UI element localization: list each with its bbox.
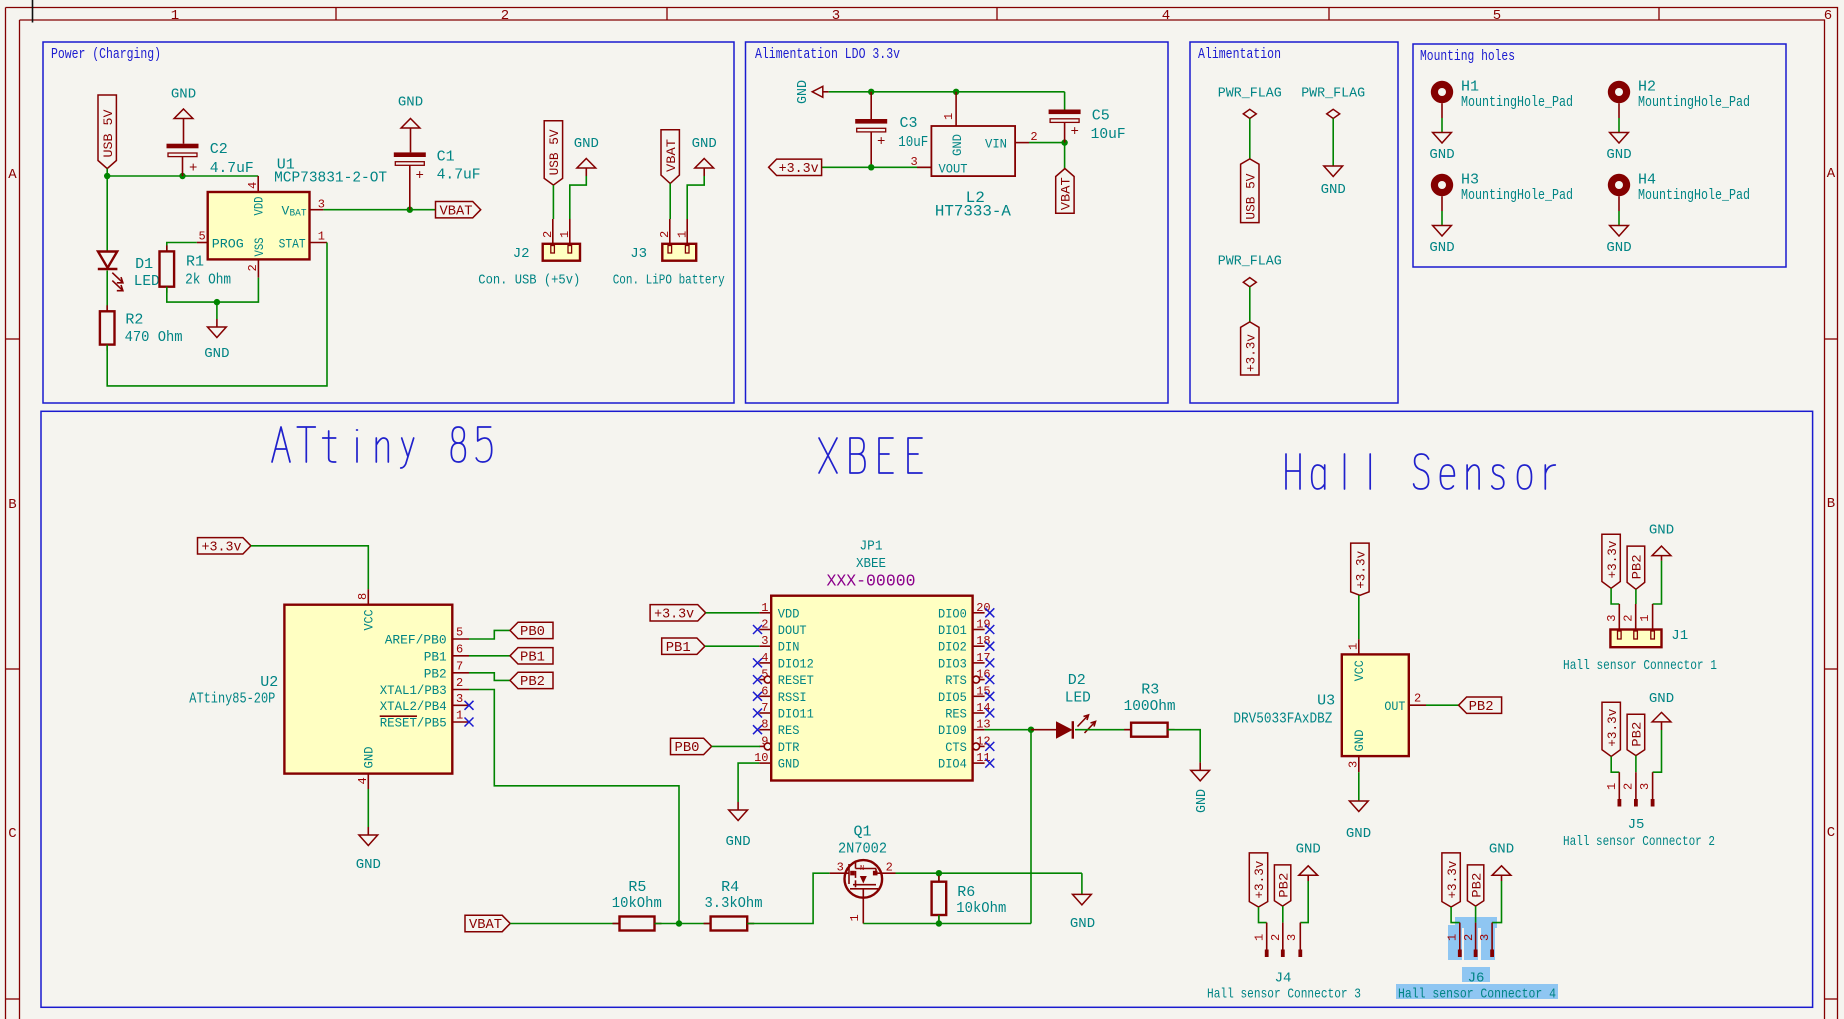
global label PB2 vertical (J5) [1627,714,1645,755]
svg-text:3: 3 [1478,934,1492,941]
svg-text:GND: GND [1606,147,1631,163]
svg-text:2: 2 [541,231,555,238]
svg-text:Mounting holes: Mounting holes [1420,48,1515,65]
svg-text:2: 2 [501,8,509,24]
svg-text:R3: R3 [1141,682,1159,699]
svg-text:+3.3v: +3.3v [779,161,819,177]
global label PB2 vertical (J1) [1627,546,1645,589]
svg-text:R6: R6 [957,884,975,901]
svg-text:J1: J1 [1671,628,1688,644]
svg-text:B: B [1827,496,1835,512]
JP1 pin 9 DTR [759,745,764,747]
svg-text:VIN: VIN [985,137,1007,152]
svg-text:GND: GND [692,136,717,152]
svg-text:VBAT: VBAT [664,139,679,172]
svg-text:7: 7 [456,659,463,673]
svg-text:A: A [8,167,17,183]
power flag VBAT (J3) [661,130,679,184]
svg-text:DRV5033FAxDBZ: DRV5033FAxDBZ [1233,711,1332,728]
svg-text:H3: H3 [1461,172,1479,189]
mounting hole H2 [1608,81,1630,103]
svg-text:GND: GND [1429,147,1454,163]
svg-text:J3: J3 [630,246,647,262]
svg-text:1: 1 [558,231,572,238]
svg-text:PB0: PB0 [675,740,700,756]
ground symbol (U1) [216,319,218,327]
svg-text:1: 1 [1638,614,1652,621]
wire to GND (Q1 drain) [1081,873,1083,894]
U2 pin 8 VCC [367,589,369,605]
svg-text:V: V [282,203,290,218]
svg-text:2: 2 [1414,692,1421,706]
svg-text:GND: GND [1352,729,1367,751]
U2 pin 1 RESET/PB5 [452,721,469,723]
svg-text:2: 2 [1622,783,1636,790]
power flag USB 5V (power box) [98,95,116,169]
U2 pin 3 XTAL2/PB4 [452,704,469,706]
svg-text:+3.3v: +3.3v [1605,709,1620,747]
wire VBAT to R5 [510,923,619,925]
wire JP1 GND [738,763,759,802]
svg-text:MountingHole_Pad: MountingHole_Pad [1638,187,1750,204]
mounting hole H1 [1431,81,1453,103]
svg-text:4: 4 [356,777,370,784]
JP1 pin 18 DIO2 [973,645,985,647]
svg-text:DIO4: DIO4 [938,757,967,772]
svg-text:17: 17 [976,651,990,665]
svg-text:PB2: PB2 [520,674,545,690]
svg-text:2k Ohm: 2k Ohm [185,272,231,289]
svg-text:1: 1 [171,8,179,24]
ground symbol (U3) [1358,800,1360,802]
svg-text:7: 7 [761,701,768,715]
selection highlight J6 name [1462,967,1490,982]
capacitor C1 [394,152,426,157]
svg-text:DIN: DIN [778,640,800,655]
svg-text:+: + [189,161,197,177]
junction C3 top [868,89,874,95]
junction R5/R4 node [676,920,682,926]
svg-text:VCC: VCC [1352,660,1367,681]
svg-text:VBAT: VBAT [469,917,502,933]
selection highlight J6 pins [1448,925,1462,960]
JP1 pin 10 GND [759,762,771,764]
svg-text:9: 9 [761,734,768,748]
global label VBAT (bottom) [465,915,510,931]
svg-text:GND: GND [1649,523,1674,539]
svg-text:GND: GND [1489,842,1514,858]
svg-text:DIO11: DIO11 [778,707,814,722]
wire node down to D1 [106,176,108,252]
svg-text:MCP73831-2-OT: MCP73831-2-OT [274,170,387,187]
svg-text:100Ohm: 100Ohm [1124,698,1176,715]
wire VBAT net [323,209,435,211]
svg-text:3: 3 [1605,614,1619,621]
svg-text:10uF: 10uF [1091,126,1126,143]
wire C3 bottom to +3.3v rail [822,166,932,168]
junction R6 bottom [936,920,942,926]
U1 pin 5 PROG [197,242,208,244]
svg-text:H2: H2 [1638,79,1656,96]
svg-text:VSS: VSS [252,237,267,256]
svg-text:PB2: PB2 [1469,699,1494,715]
svg-text:GND: GND [1070,916,1095,932]
svg-text:DIO3: DIO3 [938,656,967,671]
U3 pin 2 OUT [1409,704,1426,706]
svg-text:PB1: PB1 [666,640,691,656]
svg-text:J5: J5 [1628,817,1645,833]
global label PB1 (U2) [510,648,553,664]
junction USB5V node [104,173,110,179]
svg-text:+3.3v: +3.3v [1244,334,1259,372]
U1 pin 2 VSS [257,259,259,277]
svg-text:GND: GND [725,834,750,850]
junction C3 bottom [868,164,874,170]
svg-text:R1: R1 [186,254,204,271]
global label PB2 vertical (J4) [1274,865,1290,906]
JP1 pin 6 RSSI [759,695,771,697]
svg-text:AREF/PB0: AREF/PB0 [385,633,447,648]
JP1 pin 7 DIO11 [759,712,771,714]
junction R6 top [936,870,942,876]
svg-text:3: 3 [761,634,768,648]
junction DIO9 [1028,727,1034,733]
JP1 pin 2 DOUT [759,629,771,631]
ground symbol (R3, rotated) [1199,762,1201,770]
svg-text:1: 1 [848,914,862,921]
svg-text:6: 6 [1824,8,1832,24]
wire OUT to PB2 [1426,704,1459,706]
power flag +3.3v (U3) [1351,543,1369,595]
svg-text:3: 3 [837,861,844,875]
svg-text:GND: GND [362,746,377,768]
svg-text:H1: H1 [1461,79,1479,96]
svg-text:5: 5 [456,626,463,640]
global label VBAT (power box) [436,202,481,218]
svg-text:DTR: DTR [778,740,800,755]
svg-text:A: A [1827,166,1836,182]
svg-text:3: 3 [1285,934,1299,941]
JP1 pin 5 RESET [759,679,764,681]
svg-text:+3.3v: +3.3v [1252,860,1267,898]
junction C5/VBAT [1061,139,1067,145]
wire J1 pin2 (PB2) [1635,589,1637,604]
svg-text:5: 5 [199,230,206,244]
svg-text:JP1: JP1 [860,539,883,555]
section box Power (Charging) [43,42,734,403]
wire J1 pin3 (+3.3v) [1611,588,1619,604]
wire PB0 to DTR [712,745,760,747]
JP1 pin 12 CTS [980,745,985,747]
U1 pin 1 STAT [310,242,328,244]
svg-text:+3.3v: +3.3v [1605,540,1620,578]
svg-text:18: 18 [976,634,990,648]
svg-text:16: 16 [976,668,990,682]
svg-text:R2: R2 [125,312,143,329]
svg-text:H4: H4 [1638,172,1656,189]
diode D1 LED [98,252,117,268]
svg-text:2: 2 [1462,934,1476,941]
section box Alimentation [1190,42,1398,403]
wire PB1 to DIN [705,645,759,647]
global label PB1 (JP1) [662,638,705,654]
svg-text:GND: GND [795,80,811,104]
svg-text:8: 8 [761,718,768,732]
svg-text:GND: GND [778,757,800,772]
wire J4 pin2 (PB2) [1282,906,1284,923]
capacitor C5 10uF [1064,92,1066,110]
svg-text:VOUT: VOUT [939,162,968,177]
diode D2 LED [1056,721,1073,739]
wire pin6 to PB1 [469,655,510,657]
resistor R6 10kOhm [938,873,940,882]
svg-text:+: + [416,168,424,184]
frame column ticks [335,8,337,21]
wire J3 GND to pin1 [687,176,704,219]
junction L2 pin1 [953,89,959,95]
svg-text:Power (Charging): Power (Charging) [51,46,161,63]
svg-text:3.3kOhm: 3.3kOhm [705,895,763,912]
svg-text:DOUT: DOUT [778,623,807,638]
svg-text:5: 5 [761,668,768,682]
svg-text:2: 2 [246,264,260,271]
svg-text:1: 1 [318,230,325,244]
svg-text:XTAL2/PB4: XTAL2/PB4 [380,699,447,714]
svg-text:1: 1 [761,601,768,615]
power flag USB 5V (J2) [544,121,562,185]
wire PROG to R1 [167,243,197,252]
wire D1 to R2 [106,271,108,312]
svg-text:BAT: BAT [290,208,307,219]
svg-text:470 Ohm: 470 Ohm [125,329,183,346]
svg-text:GND: GND [171,87,196,103]
wire DIO9 node down [1030,730,1032,924]
JP1 pin 3 DIN [759,645,771,647]
title Hall Sensor [1286,454,1300,489]
svg-text:PB2: PB2 [424,666,447,681]
junction VSS/GND node [214,299,220,305]
wire R5 to R4 [655,923,711,925]
svg-text:4: 4 [246,182,260,189]
svg-text:+3.3v: +3.3v [202,539,242,555]
U1 pin 4 VDD [257,176,259,192]
ground symbol (Q1 drain) [1081,893,1083,895]
svg-text:C2: C2 [210,141,228,158]
svg-text:RESET: RESET [778,673,814,688]
svg-text:RESET/PB5: RESET/PB5 [380,716,447,731]
svg-text:RSSI: RSSI [778,690,807,705]
wire J3 pin2 [669,184,671,220]
svg-text:OUT: OUT [1384,699,1405,714]
svg-text:GND: GND [204,346,229,362]
svg-text:U3: U3 [1317,693,1335,710]
svg-text:3: 3 [832,8,840,24]
JP1 pin 4 DIO12 [759,662,771,664]
svg-text:XXX-00000: XXX-00000 [827,573,916,592]
svg-text:15: 15 [976,684,990,698]
svg-text:1: 1 [942,113,956,120]
svg-text:+: + [1071,124,1079,140]
svg-text:4: 4 [761,651,768,665]
wire USB5V to node [106,169,108,176]
JP1 pin 1 VDD [759,612,771,614]
power flag +3.3v (J6) [1442,853,1460,907]
wire J1 pin1 (GND) [1653,561,1662,604]
title XBEE [819,438,837,473]
wire STAT to R2 bottom [107,243,327,386]
svg-text:LED: LED [1065,690,1091,707]
svg-text:XTAL1/PB3: XTAL1/PB3 [380,683,447,698]
svg-text:PB2: PB2 [1630,722,1645,747]
svg-text:12: 12 [976,734,990,748]
wire J5 pin3 (GND) [1653,730,1662,772]
L2 pin 3 VOUT [917,166,931,168]
svg-text:MountingHole_Pad: MountingHole_Pad [1638,94,1750,111]
global label +3.3v (U2) [198,538,251,554]
svg-text:PWR_FLAG: PWR_FLAG [1301,86,1365,102]
wire J2 GND to pin1 [570,176,587,219]
title ATtiny 85 [272,427,290,462]
svg-text:1: 1 [456,709,463,723]
wire J6 pin2 (PB2) [1475,906,1477,923]
svg-text:DIO2: DIO2 [938,640,967,655]
resistor R3 100Ohm [1124,729,1131,731]
Q1 pin 1 lead [862,898,864,924]
svg-text:N: N [860,865,864,873]
svg-text:R5: R5 [628,879,646,896]
svg-text:3: 3 [1638,783,1652,790]
wire J6 pin3 (GND) [1492,881,1501,923]
svg-text:6: 6 [761,684,768,698]
U2 pin 6 PB1 [452,655,469,657]
svg-text:10kOhm: 10kOhm [956,900,1006,917]
JP1 pin 14 RES [973,712,985,714]
svg-text:RTS: RTS [945,673,967,688]
global label +3.3v (LDO) [769,159,822,175]
section box main (ATtiny 85 / XBEE / Hall Sensor) [41,411,1813,1007]
wire R3 to GND [1168,730,1201,763]
svg-text:14: 14 [976,701,990,715]
svg-text:PB1: PB1 [424,649,447,664]
svg-text:PROG: PROG [212,236,244,251]
svg-text:U2: U2 [260,674,278,691]
svg-text:4.7uF: 4.7uF [210,160,254,177]
svg-text:3: 3 [1347,761,1361,768]
U2 pin 5 AREF/PB0 [452,638,469,640]
wire +3.3v to VDD [706,612,760,614]
svg-text:GND: GND [574,136,599,152]
IC U2 ATtiny85-20P body [284,605,452,774]
svg-text:D1: D1 [135,256,153,273]
global label PB2 (U3) [1459,697,1502,713]
svg-text:USB 5V: USB 5V [547,129,562,175]
svg-text:MountingHole_Pad: MountingHole_Pad [1461,94,1573,111]
svg-text:GND: GND [1194,789,1210,813]
svg-text:2: 2 [886,861,893,875]
svg-text:20: 20 [976,601,990,615]
svg-text:STAT: STAT [279,236,306,251]
svg-text:J2: J2 [513,246,530,262]
IC U3 DRV5033FAxDBZ body [1342,654,1409,756]
wire LDO top rail [829,91,1065,93]
svg-text:+3.3v: +3.3v [1445,860,1460,898]
U3 pin 1 VCC [1358,639,1360,654]
connector JP1 XBEE body [771,596,972,781]
svg-text:VBAT: VBAT [1059,177,1074,210]
svg-text:6: 6 [456,642,463,656]
svg-text:GND: GND [1346,826,1371,842]
global label +3.3v (JP1) [650,605,706,621]
svg-text:C1: C1 [437,149,455,166]
svg-text:8: 8 [356,593,370,600]
svg-text:MountingHole_Pad: MountingHole_Pad [1461,187,1573,204]
svg-text:HT7333-A: HT7333-A [935,203,1011,221]
mounting hole H3 [1431,174,1453,196]
junction C2 node [179,173,185,179]
JP1 pin 8 RES [759,729,771,731]
svg-text:DIO12: DIO12 [778,656,814,671]
resistor R2 470 Ohm [106,305,108,311]
svg-text:DIO0: DIO0 [938,606,967,621]
L2 pin 2 VIN [1015,142,1029,144]
svg-text:Alimentation LDO 3.3v: Alimentation LDO 3.3v [755,46,900,63]
wire R1 bottom to VSS node [167,278,259,303]
global label PB2 vertical (J6) [1467,865,1483,906]
power flag +3.3v (J1) [1602,534,1620,588]
svg-text:4: 4 [1162,8,1170,24]
wire U3 GND [1358,772,1360,801]
svg-text:DIO1: DIO1 [938,623,967,638]
svg-text:GND: GND [1296,842,1321,858]
power flag +3.3v (J4) [1249,853,1267,907]
svg-text:GND: GND [356,857,381,873]
mounting hole H4 [1608,174,1630,196]
svg-text:19: 19 [976,618,990,632]
U1 pin 3 VBAT [310,209,324,211]
svg-text:C: C [8,826,16,842]
svg-text:Hall sensor Connector 4: Hall sensor Connector 4 [1398,987,1556,1003]
svg-text:R4: R4 [721,879,739,896]
svg-text:Hall sensor Connector 2: Hall sensor Connector 2 [1563,834,1715,850]
JP1 pin 13 DIO9 [973,729,985,731]
svg-text:RES: RES [945,707,967,722]
frame row ticks [6,338,20,340]
svg-text:1: 1 [675,231,689,238]
wire C5 to VBAT flag [1064,143,1066,169]
JP1 pin 17 DIO3 [973,662,985,664]
global label PB0 (U2) [510,622,553,638]
IC U1 MCP73831-2-OT body [208,192,310,259]
svg-text:4.7uF: 4.7uF [437,167,481,184]
svg-text:10uF: 10uF [898,134,928,151]
wire pin7 to PB2 [469,673,510,681]
wire U2 GND [367,789,369,827]
svg-text:CTS: CTS [945,740,967,755]
wire pin5 to PB0 [469,630,510,639]
svg-text:1: 1 [1446,934,1460,941]
svg-text:GND: GND [1606,240,1631,256]
wire J4 pin3 (GND) [1300,881,1308,923]
svg-text:2: 2 [1622,614,1636,621]
svg-text:GND: GND [1429,240,1454,256]
wire node to GND [216,302,218,319]
svg-text:C3: C3 [900,115,918,132]
section box Alimentation LDO 3.3v [746,42,1169,403]
section box Mounting holes [1413,44,1786,267]
svg-text:DIO9: DIO9 [938,723,967,738]
svg-text:Hall sensor Connector 1: Hall sensor Connector 1 [1563,658,1717,674]
svg-text:Alimentation: Alimentation [1198,46,1281,63]
